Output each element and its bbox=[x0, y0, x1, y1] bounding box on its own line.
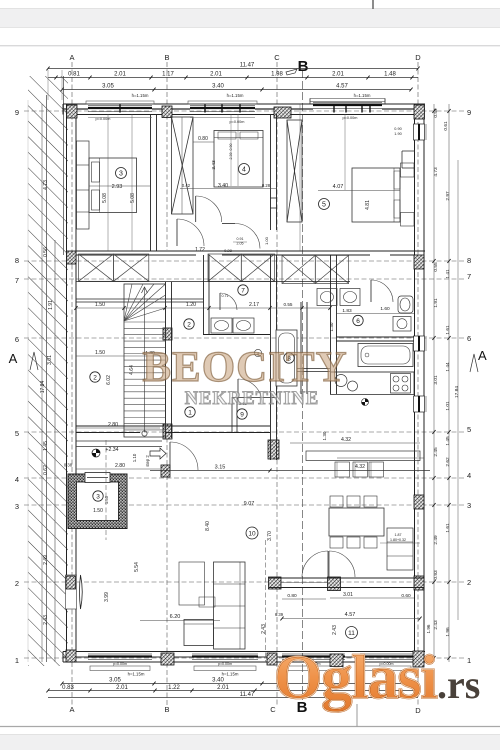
svg-text:A: A bbox=[69, 705, 74, 714]
svg-text:3.01: 3.01 bbox=[47, 355, 53, 365]
wall x330 bath/kitchen bbox=[330, 255, 332, 394]
svg-text:1.83: 1.83 bbox=[342, 308, 352, 314]
svg-text:1.61: 1.61 bbox=[445, 325, 451, 335]
door room6 bbox=[370, 280, 372, 302]
svg-text:10: 10 bbox=[248, 530, 256, 537]
corridor bottom wall bbox=[76, 425, 270, 427]
svg-text:1: 1 bbox=[15, 656, 19, 665]
corridor dim line y308 bbox=[76, 307, 330, 309]
room5 niche wall bbox=[402, 150, 415, 152]
svg-text:4.81: 4.81 bbox=[365, 200, 371, 210]
svg-text:9.07: 9.07 bbox=[244, 501, 255, 507]
svg-text:4: 4 bbox=[467, 471, 471, 480]
bottom window bands bbox=[88, 653, 152, 655]
svg-text:1.41: 1.41 bbox=[445, 269, 451, 279]
svg-text:1.48: 1.48 bbox=[384, 72, 396, 78]
level symbol kitchen bbox=[362, 399, 369, 406]
svg-text:3.40: 3.40 bbox=[212, 678, 224, 684]
svg-text:NEKRETNINE: NEKRETNINE bbox=[185, 389, 319, 409]
section line B bbox=[302, 70, 304, 700]
svg-text:2: 2 bbox=[467, 578, 471, 587]
svg-text:2.49: 2.49 bbox=[43, 555, 49, 565]
svg-text:2.43: 2.43 bbox=[332, 625, 338, 635]
row4 long wall / dims bbox=[150, 470, 430, 472]
svg-text:1.96: 1.96 bbox=[445, 627, 451, 637]
balcony door left wall gap bbox=[66, 575, 77, 609]
svg-text:2.45: 2.45 bbox=[433, 447, 439, 457]
dimension chain top row2 bbox=[62, 89, 411, 91]
corridor dim 2.80 lines bbox=[76, 427, 160, 429]
svg-text:1.30: 1.30 bbox=[329, 322, 334, 331]
room7/2 bottom wall bbox=[203, 334, 270, 336]
wall x301 rooms 7/8 bbox=[300, 302, 302, 394]
svg-text:1.10: 1.10 bbox=[132, 453, 137, 462]
sofa chaise bbox=[184, 620, 214, 646]
svg-text:2.01: 2.01 bbox=[114, 72, 126, 78]
step arrow bbox=[150, 448, 166, 459]
svg-text:0.42: 0.42 bbox=[182, 183, 191, 188]
door lower bbox=[222, 223, 235, 225]
svg-text:h=1.15m: h=1.15m bbox=[128, 672, 145, 677]
svg-text:Oglasi: Oglasi bbox=[274, 644, 438, 712]
top window band room4 bbox=[190, 105, 255, 107]
svg-text:1.90: 1.90 bbox=[394, 132, 401, 136]
svg-text:p=0.00m: p=0.00m bbox=[218, 662, 232, 666]
bottom vertical tick bbox=[356, 704, 358, 727]
top bay window room5 bbox=[313, 102, 382, 104]
grid axis lines bbox=[71, 62, 73, 706]
svg-text:3.40: 3.40 bbox=[218, 183, 228, 189]
svg-text:.rs: .rs bbox=[437, 662, 480, 707]
room11 label bbox=[346, 627, 358, 639]
structural columns bbox=[67, 105, 78, 118]
bathtub horizontal bbox=[358, 344, 413, 367]
svg-text:h=1.15m: h=1.15m bbox=[222, 672, 239, 677]
svg-text:h=1.15m: h=1.15m bbox=[354, 93, 371, 98]
double door terrace bbox=[302, 551, 328, 577]
svg-text:C: C bbox=[274, 53, 280, 62]
svg-text:4: 4 bbox=[242, 167, 246, 174]
top exterior wall bbox=[63, 103, 425, 105]
svg-text:1: 1 bbox=[188, 409, 192, 416]
svg-text:3: 3 bbox=[119, 171, 123, 178]
bottom window sills bbox=[90, 666, 150, 671]
room7 left wall bbox=[203, 255, 205, 335]
svg-text:2.01: 2.01 bbox=[210, 72, 222, 78]
svg-text:0.59: 0.59 bbox=[433, 108, 439, 118]
hall wall segment bbox=[76, 440, 162, 442]
room5 label bbox=[319, 199, 330, 210]
bottom exterior wall bbox=[63, 651, 425, 653]
svg-text:D: D bbox=[415, 53, 421, 62]
svg-text:1.96: 1.96 bbox=[426, 624, 431, 633]
door room4 entry bbox=[195, 196, 197, 222]
room8 label bbox=[284, 353, 294, 363]
room3 label bbox=[116, 168, 127, 179]
svg-text:6: 6 bbox=[356, 318, 360, 325]
svg-text:1.80+0.32: 1.80+0.32 bbox=[390, 538, 406, 542]
elevator label bbox=[93, 491, 103, 501]
bar counter bbox=[306, 451, 420, 461]
svg-text:5: 5 bbox=[467, 425, 471, 434]
staircase bbox=[124, 284, 166, 437]
thin separator line bbox=[0, 45, 500, 47]
svg-text:1.45: 1.45 bbox=[445, 436, 451, 446]
svg-text:6: 6 bbox=[15, 335, 19, 344]
left exterior wall bbox=[66, 104, 68, 662]
living axis dashed bbox=[265, 540, 267, 662]
wall y335-340 bath top right bbox=[336, 336, 414, 338]
dining chairs bbox=[330, 496, 343, 507]
svg-text:0.61: 0.61 bbox=[443, 121, 449, 131]
elevator shaft bbox=[68, 474, 127, 529]
svg-text:2.80: 2.80 bbox=[108, 422, 118, 428]
svg-text:7: 7 bbox=[241, 287, 245, 294]
svg-text:6.39: 6.39 bbox=[275, 612, 284, 617]
svg-text:3.05: 3.05 bbox=[109, 678, 121, 684]
svg-text:5: 5 bbox=[322, 202, 326, 209]
svg-text:1.50: 1.50 bbox=[93, 508, 103, 514]
svg-text:0.80: 0.80 bbox=[287, 593, 297, 599]
svg-text:6.02: 6.02 bbox=[106, 375, 112, 385]
svg-text:0.55: 0.55 bbox=[284, 302, 293, 307]
svg-text:2.01: 2.01 bbox=[217, 685, 229, 691]
right dim ladders bbox=[433, 104, 435, 662]
room5 bed bbox=[352, 168, 400, 222]
bar stools bbox=[335, 462, 350, 477]
svg-text:1.72: 1.72 bbox=[195, 247, 205, 253]
svg-text:0.56: 0.56 bbox=[43, 247, 49, 257]
top window band room3 bbox=[88, 105, 152, 107]
svg-text:3.01: 3.01 bbox=[343, 592, 353, 598]
svg-text:p=0.00m: p=0.00m bbox=[113, 662, 127, 666]
room10 label bbox=[246, 527, 258, 539]
room3 bed bbox=[89, 158, 137, 213]
room4 bed bbox=[214, 131, 263, 188]
svg-text:+2.34: +2.34 bbox=[105, 447, 118, 453]
stair walking line bbox=[144, 288, 146, 432]
svg-text:2.49: 2.49 bbox=[433, 535, 439, 545]
svg-text:8.40: 8.40 bbox=[205, 521, 211, 531]
svg-text:1.17: 1.17 bbox=[162, 72, 174, 78]
svg-text:4: 4 bbox=[15, 475, 19, 484]
overall dimension 11.47 top bbox=[48, 68, 418, 70]
svg-text:1.50: 1.50 bbox=[95, 302, 105, 308]
balcony door leaf lens bbox=[80, 575, 83, 609]
svg-text:2: 2 bbox=[187, 321, 191, 328]
svg-text:9: 9 bbox=[467, 108, 471, 117]
svg-text:2.17: 2.17 bbox=[249, 302, 259, 308]
svg-text:3: 3 bbox=[15, 502, 19, 511]
svg-text:1.00: 1.00 bbox=[264, 236, 269, 245]
svg-text:2: 2 bbox=[15, 579, 19, 588]
svg-text:2.80: 2.80 bbox=[115, 463, 125, 469]
room3 wardrobe bbox=[77, 141, 90, 229]
wall x270-277 lower bbox=[270, 255, 272, 460]
loggia x-band 3 bbox=[282, 255, 315, 283]
room5 nightstands bbox=[401, 163, 415, 177]
svg-text:4.73: 4.73 bbox=[43, 180, 49, 190]
svg-text:0.91: 0.91 bbox=[237, 237, 244, 241]
svg-text:0.93: 0.93 bbox=[433, 570, 439, 580]
svg-text:11: 11 bbox=[348, 630, 355, 637]
svg-text:step 2: step 2 bbox=[145, 455, 150, 467]
door room7 bbox=[219, 293, 221, 310]
svg-text:B: B bbox=[164, 705, 169, 714]
svg-text:1.22: 1.22 bbox=[168, 685, 180, 691]
svg-text:3.70: 3.70 bbox=[267, 531, 273, 541]
svg-text:7: 7 bbox=[15, 276, 19, 285]
svg-text:4.07: 4.07 bbox=[333, 184, 344, 190]
svg-text:0.83: 0.83 bbox=[62, 685, 74, 691]
svg-text:4.32: 4.32 bbox=[355, 464, 365, 470]
svg-text:A: A bbox=[9, 351, 18, 366]
room6 label bbox=[353, 315, 363, 325]
svg-text:2.97: 2.97 bbox=[445, 191, 451, 201]
svg-text:2.93: 2.93 bbox=[112, 184, 123, 190]
svg-text:3: 3 bbox=[467, 501, 471, 510]
svg-text:3.43: 3.43 bbox=[211, 160, 217, 170]
svg-text:5: 5 bbox=[15, 429, 19, 438]
kitchen tall unit bbox=[387, 528, 413, 570]
door room9 bbox=[237, 379, 239, 403]
svg-text:0.62: 0.62 bbox=[43, 465, 49, 475]
svg-text:1.61: 1.61 bbox=[445, 523, 451, 533]
svg-text:1.50: 1.50 bbox=[104, 495, 109, 504]
row2 wall between living and terrace bbox=[269, 577, 424, 579]
tv shelf small bbox=[199, 597, 215, 607]
svg-text:BEOCITY: BEOCITY bbox=[142, 344, 347, 391]
svg-text:A: A bbox=[69, 53, 74, 62]
svg-text:17.84: 17.84 bbox=[454, 386, 460, 398]
svg-text:3.05: 3.05 bbox=[102, 84, 114, 90]
svg-text:1.50: 1.50 bbox=[95, 350, 105, 356]
svg-text:3: 3 bbox=[96, 493, 100, 500]
L-sofa bbox=[214, 562, 246, 649]
svg-text:2.01: 2.01 bbox=[116, 685, 128, 691]
svg-text:1.91: 1.91 bbox=[48, 300, 54, 310]
level marker +2.34 bbox=[92, 449, 100, 457]
svg-text:p=0.00m: p=0.00m bbox=[230, 120, 245, 124]
svg-text:0.28: 0.28 bbox=[262, 183, 271, 188]
svg-text:1.30: 1.30 bbox=[322, 431, 327, 440]
shaft right of room4 bbox=[287, 120, 302, 222]
elevator axis dashed bbox=[105, 440, 107, 540]
svg-text:0.38: 0.38 bbox=[64, 463, 73, 468]
room labels corridor bbox=[184, 319, 194, 329]
svg-text:p=0.00m: p=0.00m bbox=[343, 116, 358, 120]
svg-text:6.20: 6.20 bbox=[170, 614, 181, 620]
svg-text:1.20: 1.20 bbox=[186, 302, 196, 308]
bottom dimension chains bbox=[62, 683, 411, 685]
room6 basins bbox=[317, 289, 337, 306]
wall x235 room9 bbox=[231, 397, 233, 432]
svg-text:2: 2 bbox=[93, 374, 97, 381]
svg-text:2.62: 2.62 bbox=[445, 457, 451, 467]
left dim ladder bbox=[41, 104, 43, 662]
wall between room3 and room4 (x150) bbox=[150, 114, 152, 251]
svg-text:1.87: 1.87 bbox=[395, 533, 402, 537]
svg-text:1.91: 1.91 bbox=[433, 298, 439, 308]
svg-text:3.40: 3.40 bbox=[212, 84, 224, 90]
svg-text:11.47: 11.47 bbox=[240, 692, 255, 698]
svg-text:3.99: 3.99 bbox=[104, 592, 110, 602]
svg-text:1.45: 1.45 bbox=[43, 441, 49, 451]
top gray toolbar band bbox=[0, 9, 500, 28]
svg-text:5.54: 5.54 bbox=[134, 562, 140, 572]
svg-text:4.57: 4.57 bbox=[345, 612, 356, 618]
svg-text:9: 9 bbox=[240, 411, 244, 418]
svg-text:2.01: 2.01 bbox=[332, 72, 344, 78]
small scrollbar tick top bbox=[372, 0, 374, 9]
svg-text:1.44: 1.44 bbox=[445, 362, 451, 372]
wall y368 bath8 bbox=[277, 368, 330, 370]
svg-text:0.71: 0.71 bbox=[222, 294, 229, 298]
svg-text:4.57: 4.57 bbox=[336, 84, 348, 90]
loggia x-band 2 bbox=[208, 254, 241, 281]
svg-text:2.43: 2.43 bbox=[43, 615, 49, 625]
svg-text:8: 8 bbox=[15, 256, 19, 265]
loggia x-band 1 bbox=[79, 254, 114, 281]
bottom separator line bbox=[0, 726, 500, 728]
svg-text:A: A bbox=[478, 348, 487, 363]
svg-text:0.28: 0.28 bbox=[224, 248, 233, 253]
stove bbox=[391, 374, 411, 394]
corridor top wall bbox=[76, 250, 425, 252]
svg-text:7: 7 bbox=[467, 272, 471, 281]
svg-text:1.98: 1.98 bbox=[271, 72, 283, 78]
svg-text:5.08: 5.08 bbox=[102, 193, 108, 203]
svg-text:1.60: 1.60 bbox=[380, 306, 390, 312]
svg-text:11.47: 11.47 bbox=[240, 63, 255, 69]
svg-text:3.01: 3.01 bbox=[433, 375, 439, 385]
svg-text:1.01: 1.01 bbox=[445, 401, 451, 411]
svg-text:2.43: 2.43 bbox=[261, 624, 267, 634]
door room3 bbox=[176, 219, 178, 246]
svg-text:0.90: 0.90 bbox=[394, 127, 401, 131]
wall axis C upper bbox=[270, 114, 272, 230]
door corridor-living bbox=[169, 442, 171, 470]
window sill top detail lines bbox=[88, 117, 152, 119]
svg-text:2.43: 2.43 bbox=[433, 620, 439, 630]
dining table bbox=[329, 508, 384, 536]
svg-text:h=1.15m: h=1.15m bbox=[132, 93, 149, 98]
corridor dim line y356 bbox=[76, 355, 165, 357]
neighbour building hatch band bbox=[28, 76, 68, 666]
svg-text:B: B bbox=[298, 58, 309, 75]
kitchen sink bbox=[335, 375, 347, 387]
svg-text:3.15: 3.15 bbox=[215, 465, 226, 471]
right wall windows bbox=[414, 124, 425, 140]
svg-text:B: B bbox=[164, 53, 169, 62]
shaft left of room4 bbox=[172, 117, 194, 214]
svg-text:17.84: 17.84 bbox=[40, 381, 46, 394]
svg-text:0.81: 0.81 bbox=[68, 72, 80, 78]
room4 label bbox=[239, 164, 250, 175]
room7 twin sinks bbox=[211, 318, 232, 333]
kitchen dims bbox=[290, 442, 420, 444]
axis B wall mid bbox=[165, 282, 167, 438]
kitchen counter bbox=[331, 372, 415, 395]
room7 label bbox=[238, 285, 248, 295]
svg-text:0.80: 0.80 bbox=[198, 136, 208, 142]
svg-text:4.73: 4.73 bbox=[433, 167, 439, 177]
svg-text:4.64: 4.64 bbox=[129, 365, 135, 375]
svg-text:6: 6 bbox=[467, 334, 471, 343]
dimension chain top row1 bbox=[48, 77, 418, 79]
svg-text:8: 8 bbox=[467, 256, 471, 265]
svg-text:9: 9 bbox=[15, 108, 19, 117]
svg-text:5.08: 5.08 bbox=[130, 193, 136, 203]
svg-text:0.55: 0.55 bbox=[433, 262, 439, 272]
bottom gray band bbox=[0, 735, 500, 750]
wall under loggia bbox=[76, 281, 350, 283]
toilet bbox=[398, 296, 413, 313]
rug/coffee table bbox=[179, 562, 205, 605]
bathtub vertical room8 bbox=[276, 330, 297, 386]
right exterior wall bbox=[414, 104, 416, 652]
washing machine bbox=[393, 317, 411, 332]
svg-text:4.32: 4.32 bbox=[341, 437, 351, 443]
svg-text:h=1.15m: h=1.15m bbox=[227, 93, 244, 98]
